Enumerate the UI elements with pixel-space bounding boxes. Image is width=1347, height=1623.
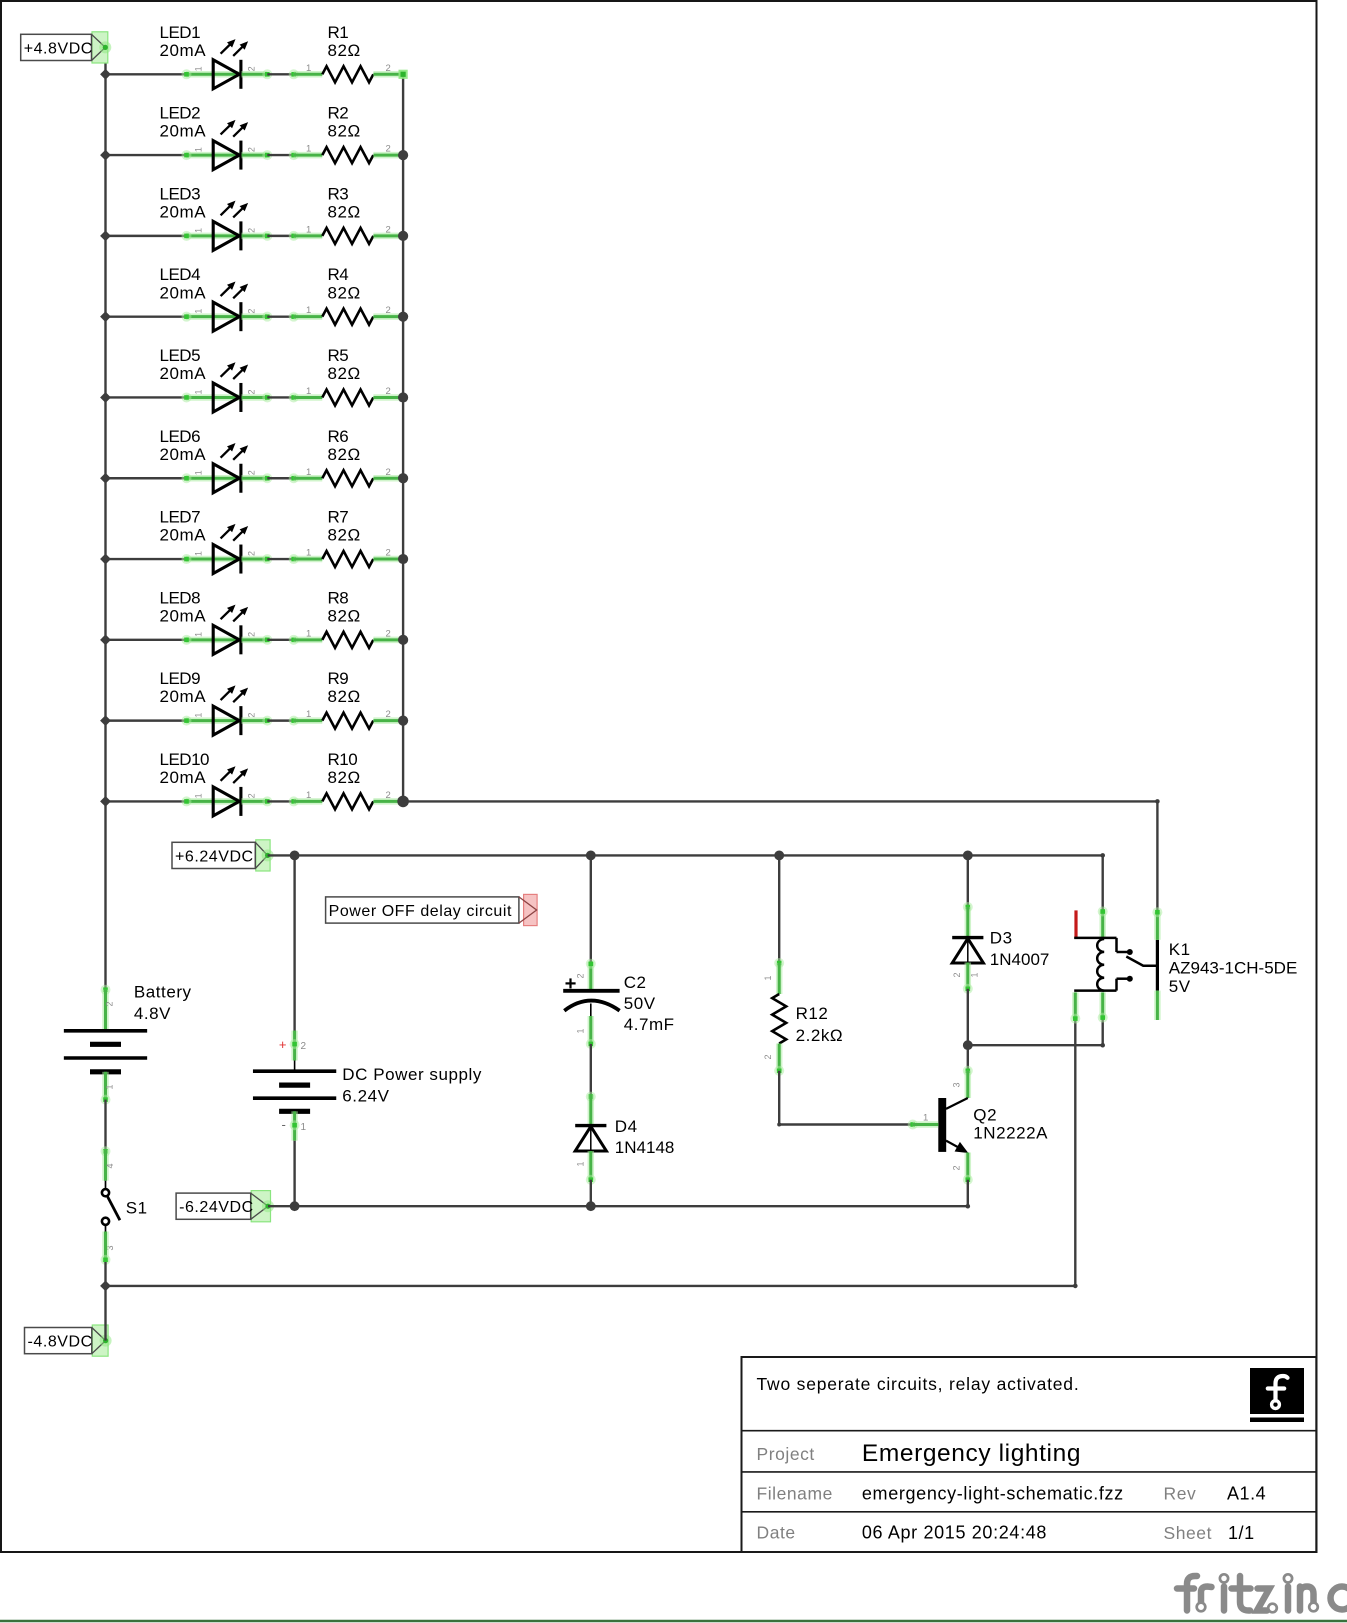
svg-text:1: 1 — [306, 467, 311, 478]
svg-text:2: 2 — [386, 144, 391, 155]
svg-text:4.8V: 4.8V — [134, 1004, 171, 1023]
svg-text:82Ω: 82Ω — [328, 122, 361, 141]
svg-text:82Ω: 82Ω — [328, 526, 361, 545]
svg-text:20mA: 20mA — [160, 122, 207, 141]
svg-text:1: 1 — [194, 632, 204, 637]
svg-text:LED1: LED1 — [160, 23, 201, 42]
svg-text:2: 2 — [247, 389, 257, 394]
svg-text:D4: D4 — [615, 1117, 638, 1136]
svg-text:1: 1 — [306, 628, 311, 639]
svg-text:DC Power supply: DC Power supply — [342, 1065, 482, 1084]
svg-text:2: 2 — [386, 548, 391, 559]
svg-text:+4.8VDC: +4.8VDC — [24, 40, 93, 57]
svg-text:20mA: 20mA — [160, 768, 207, 787]
svg-text:emergency-light-schematic.fzz: emergency-light-schematic.fzz — [862, 1484, 1124, 1504]
svg-text:A1.4: A1.4 — [1227, 1484, 1266, 1504]
svg-text:LED3: LED3 — [160, 184, 201, 203]
svg-text:2: 2 — [952, 1165, 962, 1170]
svg-text:LED9: LED9 — [160, 669, 201, 688]
svg-text:+6.24VDC: +6.24VDC — [175, 848, 254, 865]
svg-text:4: 4 — [105, 1163, 115, 1168]
svg-text:82Ω: 82Ω — [328, 202, 361, 221]
svg-text:1: 1 — [306, 548, 311, 559]
svg-text:1: 1 — [194, 793, 204, 798]
svg-text:1: 1 — [306, 63, 311, 74]
svg-text:2: 2 — [386, 709, 391, 720]
svg-text:LED5: LED5 — [160, 346, 201, 365]
svg-text:2.2kΩ: 2.2kΩ — [796, 1026, 844, 1045]
svg-text:2: 2 — [301, 1041, 307, 1052]
svg-text:2: 2 — [105, 1001, 115, 1006]
svg-text:LED7: LED7 — [160, 508, 201, 527]
svg-text:1: 1 — [194, 470, 204, 475]
svg-text:1: 1 — [194, 66, 204, 71]
svg-text:Power OFF delay circuit: Power OFF delay circuit — [329, 903, 512, 920]
svg-text:1: 1 — [194, 551, 204, 556]
svg-text:20mA: 20mA — [160, 606, 207, 625]
svg-text:K1: K1 — [1169, 940, 1191, 959]
svg-text:3: 3 — [952, 1082, 962, 1087]
svg-text:20mA: 20mA — [160, 41, 207, 60]
svg-text:2: 2 — [386, 628, 391, 639]
svg-text:1: 1 — [576, 1028, 586, 1033]
svg-text:20mA: 20mA — [160, 445, 207, 464]
svg-text:2: 2 — [247, 551, 257, 556]
svg-text:LED6: LED6 — [160, 427, 201, 446]
svg-text:20mA: 20mA — [160, 283, 207, 302]
svg-text:1: 1 — [923, 1112, 928, 1123]
svg-text:2: 2 — [247, 632, 257, 637]
svg-text:20mA: 20mA — [160, 364, 207, 383]
svg-text:R7: R7 — [328, 508, 349, 527]
svg-text:2: 2 — [247, 147, 257, 152]
svg-text:2: 2 — [952, 972, 962, 977]
svg-text:1: 1 — [194, 389, 204, 394]
svg-text:1: 1 — [194, 713, 204, 718]
svg-text:5V: 5V — [1169, 977, 1191, 996]
svg-text:Two seperate circuits, relay a: Two seperate circuits, relay activated. — [757, 1374, 1080, 1394]
svg-text:1: 1 — [763, 975, 773, 980]
svg-text:1: 1 — [576, 1161, 586, 1166]
svg-text:1: 1 — [306, 144, 311, 155]
svg-text:20mA: 20mA — [160, 202, 207, 221]
svg-text:82Ω: 82Ω — [328, 445, 361, 464]
svg-text:Rev: Rev — [1164, 1484, 1197, 1504]
svg-text:2: 2 — [247, 228, 257, 233]
svg-text:1: 1 — [970, 972, 980, 977]
svg-text:1N4148: 1N4148 — [615, 1138, 675, 1157]
svg-text:LED8: LED8 — [160, 588, 201, 607]
svg-text:2: 2 — [763, 1054, 773, 1059]
svg-text:2: 2 — [386, 790, 391, 801]
svg-text:LED10: LED10 — [160, 750, 210, 769]
svg-text:1: 1 — [194, 309, 204, 314]
svg-text:2: 2 — [247, 66, 257, 71]
svg-text:06 Apr 2015 20:24:48: 06 Apr 2015 20:24:48 — [862, 1522, 1047, 1542]
svg-text:R2: R2 — [328, 104, 349, 123]
svg-text:82Ω: 82Ω — [328, 606, 361, 625]
svg-text:2: 2 — [386, 63, 391, 74]
svg-text:AZ943-1CH-5DE: AZ943-1CH-5DE — [1169, 959, 1298, 978]
svg-text:R12: R12 — [796, 1004, 829, 1023]
svg-text:1: 1 — [306, 305, 311, 316]
svg-text:82Ω: 82Ω — [328, 687, 361, 706]
svg-text:50V: 50V — [624, 994, 656, 1013]
svg-text:2: 2 — [386, 467, 391, 478]
svg-text:1: 1 — [306, 224, 311, 235]
svg-text:Q2: Q2 — [973, 1105, 997, 1124]
svg-text:2: 2 — [576, 973, 586, 978]
svg-text:D3: D3 — [990, 929, 1013, 948]
svg-text:R6: R6 — [328, 427, 349, 446]
svg-text:2: 2 — [386, 224, 391, 235]
svg-text:R5: R5 — [328, 346, 349, 365]
svg-text:1: 1 — [105, 1084, 115, 1089]
svg-text:LED4: LED4 — [160, 265, 201, 284]
svg-text:1N4007: 1N4007 — [990, 950, 1050, 969]
svg-text:Emergency lighting: Emergency lighting — [862, 1440, 1081, 1467]
svg-text:1/1: 1/1 — [1228, 1523, 1255, 1543]
svg-text:+: + — [279, 1037, 287, 1052]
svg-text:82Ω: 82Ω — [328, 41, 361, 60]
svg-text:1N2222A: 1N2222A — [973, 1123, 1048, 1142]
svg-text:2: 2 — [247, 713, 257, 718]
svg-text:82Ω: 82Ω — [328, 768, 361, 787]
svg-text:6.24V: 6.24V — [342, 1086, 389, 1105]
svg-text:82Ω: 82Ω — [328, 283, 361, 302]
svg-text:R8: R8 — [328, 588, 349, 607]
svg-text:R10: R10 — [328, 750, 358, 769]
svg-text:1: 1 — [306, 386, 311, 397]
svg-text:2: 2 — [386, 305, 391, 316]
svg-text:C2: C2 — [624, 973, 647, 992]
svg-text:Sheet: Sheet — [1164, 1523, 1212, 1543]
svg-text:Battery: Battery — [134, 983, 192, 1002]
svg-text:Project: Project — [757, 1444, 815, 1464]
svg-text:20mA: 20mA — [160, 526, 207, 545]
svg-text:1: 1 — [306, 790, 311, 801]
svg-text:S1: S1 — [126, 1198, 148, 1217]
svg-text:-4.8VDC: -4.8VDC — [28, 1334, 93, 1351]
svg-text:20mA: 20mA — [160, 687, 207, 706]
svg-text:4.7mF: 4.7mF — [624, 1015, 675, 1034]
svg-text:82Ω: 82Ω — [328, 364, 361, 383]
svg-text:1: 1 — [301, 1122, 307, 1133]
svg-text:2: 2 — [247, 793, 257, 798]
svg-text:1: 1 — [194, 228, 204, 233]
svg-text:R1: R1 — [328, 23, 349, 42]
svg-text:1: 1 — [306, 709, 311, 720]
svg-text:2: 2 — [247, 309, 257, 314]
svg-text:R3: R3 — [328, 184, 349, 203]
svg-text:LED2: LED2 — [160, 104, 201, 123]
svg-text:Date: Date — [757, 1522, 796, 1542]
svg-text:R4: R4 — [328, 265, 349, 284]
svg-text:-: - — [282, 1117, 287, 1132]
svg-text:Filename: Filename — [757, 1484, 833, 1504]
svg-text:1: 1 — [194, 147, 204, 152]
svg-text:-6.24VDC: -6.24VDC — [179, 1199, 254, 1216]
svg-text:2: 2 — [247, 470, 257, 475]
svg-text:R9: R9 — [328, 669, 349, 688]
svg-text:2: 2 — [386, 386, 391, 397]
